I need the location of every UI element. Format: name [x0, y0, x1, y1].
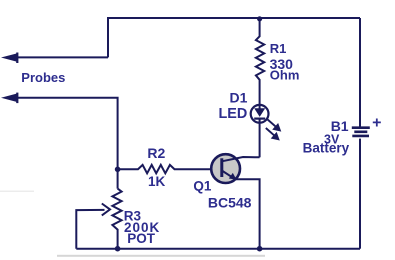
svg-text:Ohm: Ohm: [270, 68, 300, 83]
svg-text:LED: LED: [219, 106, 248, 122]
svg-text:BC548: BC548: [208, 194, 252, 210]
svg-text:POT: POT: [127, 231, 156, 246]
svg-text:R2: R2: [147, 145, 165, 161]
svg-text:Q1: Q1: [193, 178, 212, 193]
svg-text:+: +: [372, 114, 381, 131]
svg-text:Battery: Battery: [303, 141, 350, 156]
svg-text:1K: 1K: [148, 174, 166, 189]
svg-text:D1: D1: [229, 90, 247, 106]
svg-text:R1: R1: [270, 41, 287, 56]
svg-text:Probes: Probes: [21, 70, 65, 85]
